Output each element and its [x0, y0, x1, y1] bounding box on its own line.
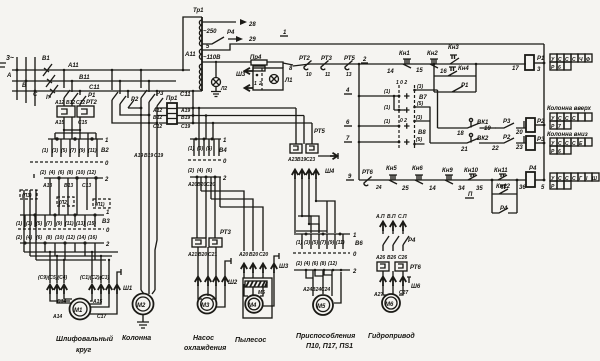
svg-text:(6): (6) [312, 261, 318, 267]
svg-text:В: В [22, 83, 27, 89]
svg-text:С: С [565, 176, 569, 182]
svg-text:В8: В8 [418, 130, 426, 136]
line 2 wire [293, 64, 526, 66]
contact table for P1 [550, 54, 592, 70]
svg-text:А13: А13 [42, 183, 52, 189]
svg-text:В1: В1 [42, 56, 50, 62]
tap to arrow 28 [202, 21, 236, 23]
svg-text:2: 2 [104, 177, 109, 183]
svg-text:Ш1: Ш1 [123, 286, 133, 292]
svg-text:Кн6: Кн6 [412, 166, 423, 172]
svg-text:Р3: Р3 [503, 119, 511, 125]
left feeder verticals [24, 199, 36, 260]
svg-text:(16): (16) [88, 235, 97, 241]
svg-text:В19: В19 [144, 153, 153, 159]
earth tick vacuum [274, 253, 279, 263]
svg-text:16: 16 [440, 69, 447, 75]
svg-text:Кн5: Кн5 [386, 166, 397, 172]
svg-text:А: А [6, 73, 11, 79]
lamp L1 [270, 75, 279, 84]
svg-text:(3): (3) [52, 148, 58, 154]
svg-text:34: 34 [458, 186, 465, 192]
svg-text:Л2: Л2 [220, 86, 227, 92]
svg-text:С17: С17 [97, 314, 106, 320]
svg-text:2: 2 [352, 269, 357, 275]
svg-text:(6): (6) [206, 168, 212, 174]
svg-text:Шлифовальный: Шлифовальный [56, 335, 114, 343]
left ladder rail [358, 64, 360, 180]
connector Sh1 arrows left group [47, 285, 53, 295]
svg-text:А11: А11 [184, 52, 196, 58]
svg-text:А21: А21 [187, 252, 197, 258]
svg-text:А15: А15 [92, 299, 102, 305]
motor M3 [198, 295, 217, 314]
wires from PT2 to switch B2 [64, 117, 80, 139]
svg-text:(5): (5) [417, 101, 423, 107]
svg-text:С23: С23 [306, 157, 315, 163]
B6 zero line [293, 252, 350, 254]
thermal relay PT6 heaters [377, 262, 389, 271]
wires to pump M3 [197, 177, 215, 238]
svg-text:6: 6 [558, 65, 561, 71]
svg-text:(14): (14) [77, 235, 86, 241]
svg-text:Ш: Ш [592, 176, 597, 182]
switch B6 row 1 [294, 233, 350, 235]
svg-text:Пылесос: Пылесос [235, 337, 266, 344]
svg-text:(5): (5) [206, 146, 212, 152]
svg-text:(5): (5) [416, 137, 422, 143]
svg-text:(7): (7) [46, 221, 52, 227]
bypass branch verticals [434, 64, 476, 92]
svg-text:Насос: Насос [193, 335, 214, 342]
lamp box [253, 68, 283, 90]
svg-text:Гидропривод: Гидропривод [368, 332, 415, 340]
svg-text:М5: М5 [317, 304, 326, 310]
svg-text:С: С [572, 57, 576, 63]
wires B7/B8 to BK rows [430, 90, 438, 143]
svg-text:(1): (1) [384, 105, 390, 111]
svg-text:А27: А27 [373, 292, 383, 298]
svg-text:(2): (2) [188, 168, 194, 174]
line 7 wire [359, 141, 399, 143]
svg-text:14: 14 [429, 186, 436, 192]
svg-text:(2): (2) [40, 170, 46, 176]
svg-text:Р4: Р4 [408, 238, 416, 244]
wire arrow right [330, 153, 338, 159]
svg-text:М4: М4 [248, 303, 257, 309]
svg-text:С: С [558, 176, 562, 182]
svg-text:С14: С14 [57, 299, 66, 305]
svg-text:(9): (9) [79, 148, 85, 154]
vacuum cleaner box [243, 278, 272, 318]
line 6 wire [359, 125, 399, 127]
coil P1 [525, 55, 534, 70]
svg-text:В20: В20 [249, 252, 258, 258]
svg-text:М6: М6 [385, 302, 394, 308]
drops to Sh1 arrows [50, 252, 109, 283]
svg-text:А19: А19 [180, 108, 190, 114]
wires P3 down to column motor M2 [141, 98, 157, 292]
svg-text:35: 35 [476, 186, 483, 192]
motor M1 [70, 299, 91, 320]
svg-text:С26: С26 [398, 255, 407, 261]
switch B2 row 1 [48, 138, 103, 140]
svg-text:Приспособления: Приспособления [296, 332, 355, 340]
svg-text:28: 28 [248, 22, 256, 28]
svg-text:Л1: Л1 [284, 78, 293, 84]
svg-text:М3: М3 [201, 303, 210, 309]
svg-text:2: 2 [105, 242, 110, 248]
svg-text:Кн2: Кн2 [427, 51, 438, 57]
svg-text:В4: В4 [219, 148, 227, 154]
contact table for P3 [550, 138, 592, 154]
svg-text:Кн10: Кн10 [464, 168, 479, 174]
svg-text:С12: С12 [76, 100, 85, 106]
svg-text:А12: А12 [54, 100, 64, 106]
drops to switch B4 [198, 107, 201, 110]
svg-text:охлаждения: охлаждения [184, 344, 226, 352]
svg-text:10: 10 [306, 72, 312, 78]
switch B3 row 1 [20, 214, 104, 216]
contact table for P2 [550, 113, 592, 129]
svg-text:Ч: Ч [579, 57, 583, 63]
svg-text:С24: С24 [321, 287, 330, 293]
svg-text:13: 13 [346, 72, 352, 78]
svg-text:С: С [572, 176, 576, 182]
svg-text:(11): (11) [88, 148, 97, 154]
svg-text:(С9)(С5)(С4): (С9)(С5)(С4) [38, 275, 68, 281]
svg-text:С: С [565, 141, 569, 147]
motor M6 [382, 294, 400, 312]
connector Sh2 arrows [195, 277, 201, 287]
B2 zero line [30, 161, 103, 163]
relay aux box L2 [57, 197, 74, 206]
svg-text:А19: А19 [133, 153, 143, 159]
svg-text:3~: 3~ [6, 55, 14, 62]
svg-text:Кн9: Кн9 [442, 168, 453, 174]
svg-text:П: П [468, 192, 473, 198]
wire from fuse to line 2 [267, 62, 293, 68]
svg-text:(1): (1) [384, 119, 390, 125]
svg-text:РТ2: РТ2 [299, 56, 310, 62]
svg-text:Кн4: Кн4 [458, 66, 469, 72]
svg-text:(7): (7) [320, 240, 326, 246]
svg-text:4: 4 [345, 88, 350, 94]
coil P2 [526, 118, 535, 132]
motor M2 column [133, 294, 154, 315]
svg-text:2: 2 [258, 81, 262, 87]
svg-text:В26: В26 [387, 255, 396, 261]
svg-text:(3): (3) [26, 221, 32, 227]
contactor P4 contacts [383, 236, 409, 245]
svg-text:(8): (8) [320, 261, 326, 267]
svg-text:Колонна вниз: Колонна вниз [547, 132, 588, 138]
svg-text:1 0 2: 1 0 2 [396, 80, 407, 86]
svg-text:А20: А20 [238, 252, 248, 258]
B4 row 2 [190, 176, 221, 178]
svg-text:Ш2: Ш2 [228, 280, 238, 286]
svg-text:А23: А23 [287, 157, 297, 163]
svg-text:Ф: Ф [586, 57, 590, 63]
svg-text:Тр1: Тр1 [193, 8, 204, 14]
svg-text:25: 25 [401, 186, 409, 192]
connector Sh3 arrows vacuum [241, 264, 247, 274]
svg-text:(5): (5) [312, 240, 318, 246]
A11 riser to transformer [183, 17, 202, 70]
svg-text:(6): (6) [58, 170, 64, 176]
bus ends turn down to PT5 [296, 108, 312, 144]
svg-text:(3): (3) [417, 84, 423, 90]
coil P4 [526, 172, 535, 187]
svg-text:(1): (1) [384, 89, 390, 95]
svg-text:24: 24 [375, 185, 382, 191]
connector Sh6 arrows [380, 277, 386, 287]
svg-text:(4): (4) [197, 168, 203, 174]
filter hatch [245, 281, 267, 287]
svg-text:С: С [558, 116, 562, 122]
svg-text:2: 2 [222, 176, 227, 182]
earth tick [225, 258, 231, 276]
svg-text:РТ5: РТ5 [344, 56, 355, 62]
bus C19 [177, 122, 312, 124]
svg-text:А12: А12 [152, 108, 162, 114]
svg-text:В19: В19 [297, 157, 306, 163]
ground under L2 [211, 87, 221, 97]
svg-text:Р4: Р4 [227, 30, 235, 36]
svg-text:(10): (10) [76, 170, 85, 176]
B3 zero line [18, 228, 104, 230]
svg-text:(7): (7) [70, 148, 76, 154]
junction dots on buses [16, 69, 19, 72]
lamp L2 [212, 78, 221, 87]
bus C (C11) [12, 90, 202, 92]
wires B6 to M5 [313, 270, 341, 303]
svg-text:23: 23 [515, 145, 523, 151]
vacuum feed wires from B4 pos2 [201, 177, 220, 207]
svg-text:15: 15 [416, 68, 423, 74]
right rail [543, 44, 545, 181]
svg-text:В6: В6 [355, 241, 363, 247]
svg-text:(11): (11) [65, 221, 74, 227]
connector Sh1 arrows right group [89, 285, 95, 295]
svg-text:(1): (1) [42, 148, 48, 154]
svg-text:(3): (3) [197, 146, 203, 152]
svg-text:ВК2: ВК2 [477, 136, 489, 142]
svg-text:(1): (1) [188, 146, 194, 152]
svg-text:(С1)(С2)(С3): (С1)(С2)(С3) [80, 275, 110, 281]
svg-text:Р4: Р4 [500, 206, 508, 212]
svg-text:(5): (5) [61, 148, 67, 154]
svg-text:С: С [565, 116, 569, 122]
wire line 1 [202, 44, 544, 50]
limit switch BK2 row [430, 138, 495, 143]
svg-text:В20: В20 [198, 252, 207, 258]
svg-text:В3: В3 [102, 219, 110, 225]
svg-text:РТ6: РТ6 [410, 265, 421, 271]
svg-text:С11: С11 [180, 92, 191, 98]
svg-text:Пр1: Пр1 [166, 96, 178, 102]
B6 row 2 [294, 269, 350, 271]
braid wires down to B6 [295, 180, 335, 233]
connector Sh4 arrows [292, 170, 298, 180]
svg-text:РТ3: РТ3 [220, 230, 231, 236]
C11 drop to fuse output bus [192, 91, 194, 123]
svg-text:М1: М1 [74, 308, 83, 314]
svg-text:А14: А14 [52, 314, 62, 320]
svg-text:С11: С11 [89, 85, 100, 91]
svg-text:Ш6: Ш6 [411, 284, 421, 290]
svg-text:А20: А20 [187, 182, 197, 188]
svg-text:С20: С20 [259, 252, 268, 258]
svg-text:20: 20 [515, 130, 523, 136]
svg-text:(12): (12) [328, 261, 337, 267]
svg-text:14: 14 [387, 69, 394, 75]
phase B drop [25, 57, 27, 103]
svg-text:(8): (8) [46, 235, 52, 241]
switch B4 row 1 [190, 138, 221, 140]
svg-text:(3): (3) [416, 115, 422, 121]
bus A (A11) [12, 69, 190, 71]
svg-text:22: 22 [491, 146, 499, 152]
svg-text:(2): (2) [296, 261, 302, 267]
svg-text:М5: М5 [258, 290, 265, 296]
relay aux box L1 [93, 199, 110, 208]
contact table for P4 [550, 173, 599, 189]
svg-text:С: С [558, 57, 562, 63]
svg-text:М2: М2 [137, 303, 146, 309]
motor M5 [313, 295, 333, 315]
svg-text:(6): (6) [36, 235, 42, 241]
svg-text:С19: С19 [181, 124, 190, 130]
svg-text:С12: С12 [153, 124, 162, 130]
svg-text:Кн1: Кн1 [399, 51, 410, 57]
svg-text:Ш3: Ш3 [236, 72, 246, 78]
svg-text:С: С [558, 141, 562, 147]
svg-text:(Л2): (Л2) [59, 200, 69, 206]
svg-text:В12: В12 [153, 115, 162, 121]
svg-text:(15): (15) [87, 221, 96, 227]
relay aux box L3 [20, 190, 37, 199]
svg-text:А.П: А.П [375, 214, 385, 220]
connector arrows up [380, 222, 386, 232]
svg-text:(9): (9) [328, 240, 334, 246]
bus A19 [177, 107, 296, 109]
svg-text:Колонна: Колонна [122, 335, 151, 342]
motor M4 [245, 295, 263, 313]
svg-text:РТ6: РТ6 [362, 170, 373, 176]
svg-text:7: 7 [558, 124, 561, 130]
bus B (B11) [12, 80, 176, 82]
svg-text:(4): (4) [49, 170, 55, 176]
svg-text:В13: В13 [64, 183, 73, 189]
svg-text:С: С [33, 92, 38, 98]
svg-text:Ш4: Ш4 [325, 169, 335, 175]
svg-text:21: 21 [460, 147, 468, 153]
svg-text:В11: В11 [79, 75, 90, 81]
phase A drop [16, 57, 18, 100]
svg-text:~250: ~250 [203, 29, 217, 35]
svg-text:1: 1 [254, 81, 257, 87]
svg-text:(12): (12) [66, 235, 75, 241]
wires B2 to B3 [34, 174, 96, 215]
B2 row 2 [44, 177, 103, 179]
svg-text:С: С [572, 141, 576, 147]
svg-text:17: 17 [512, 66, 519, 72]
svg-text:(13): (13) [76, 221, 85, 227]
svg-text:(4): (4) [26, 235, 32, 241]
bottom collector wires [24, 252, 118, 260]
svg-text:I>: I> [46, 95, 52, 101]
ground under M2 [137, 315, 149, 328]
svg-text:Кн11: Кн11 [494, 168, 508, 174]
svg-text:круг: круг [76, 347, 92, 354]
svg-text:(9): (9) [56, 221, 62, 227]
contact P4 aux [492, 208, 517, 213]
supply edge marks [0, 63, 6, 67]
bus B19 [177, 115, 304, 117]
coil P3 [526, 136, 535, 150]
svg-text:(2): (2) [16, 235, 22, 241]
B4 zero line [188, 159, 221, 161]
svg-text:19: 19 [484, 126, 491, 132]
svg-text:В20: В20 [197, 182, 206, 188]
svg-text:А11: А11 [67, 63, 79, 69]
svg-text:(11): (11) [336, 240, 345, 246]
svg-text:6: 6 [558, 149, 561, 155]
motor M1 leads [50, 294, 117, 314]
svg-text:П10, П17, ПS1: П10, П17, ПS1 [306, 343, 353, 350]
svg-text:2: 2 [362, 57, 367, 63]
svg-text:РТ5: РТ5 [314, 129, 325, 135]
limit switch BK1 row [438, 123, 496, 128]
svg-text:С: С [565, 57, 569, 63]
svg-text:29: 29 [248, 37, 256, 43]
svg-text:(4): (4) [304, 261, 310, 267]
svg-text:А24: А24 [302, 287, 312, 293]
svg-text:(8): (8) [67, 170, 73, 176]
wires P2 crossover to M2 feeders [112, 100, 157, 123]
svg-text:А26: А26 [375, 255, 385, 261]
svg-text:В24: В24 [312, 287, 321, 293]
svg-text:0 2: 0 2 [400, 118, 407, 124]
svg-text:(1): (1) [16, 221, 22, 227]
svg-text:18: 18 [457, 131, 464, 137]
svg-text:В2: В2 [101, 148, 109, 154]
svg-text:РТ3: РТ3 [321, 56, 332, 62]
svg-text:В.П: В.П [387, 214, 396, 220]
svg-text:С19: С19 [154, 153, 163, 159]
svg-text:(10): (10) [55, 235, 64, 241]
svg-text:Р1: Р1 [88, 93, 96, 99]
svg-text:А15: А15 [54, 120, 64, 126]
line 9 wire [359, 179, 526, 181]
svg-text:Ш3: Ш3 [279, 264, 289, 270]
svg-text:(12): (12) [87, 170, 96, 176]
svg-text:Колонна вверх: Колонна вверх [547, 106, 592, 112]
svg-text:С.П: С.П [398, 214, 407, 220]
B3 row 2 [20, 242, 104, 244]
svg-text:С: С [572, 116, 576, 122]
motor M3 leads [198, 285, 225, 307]
svg-text:(Л1): (Л1) [95, 202, 105, 208]
svg-text:В12: В12 [66, 100, 75, 106]
phase C drop [34, 57, 36, 106]
svg-text:Кн3: Кн3 [448, 45, 459, 51]
wires PT3 to Sh2 [198, 247, 216, 276]
svg-text:(3): (3) [304, 240, 310, 246]
svg-text:(1): (1) [296, 240, 302, 246]
latch loop verticals [492, 180, 517, 213]
